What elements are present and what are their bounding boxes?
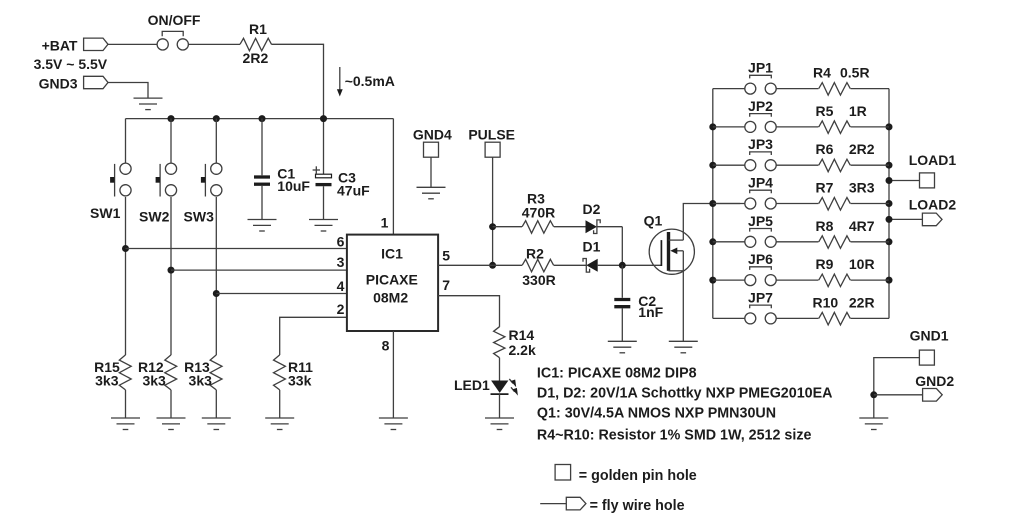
svg-text:2: 2 [337,301,345,317]
svg-text:SW3: SW3 [184,209,215,225]
svg-text:4: 4 [337,278,345,294]
svg-text:08M2: 08M2 [373,290,408,306]
svg-text:3k3: 3k3 [95,373,119,389]
svg-text:330R: 330R [522,272,555,288]
svg-text:SW1: SW1 [90,205,121,221]
svg-text:3k3: 3k3 [142,373,166,389]
svg-text:1: 1 [381,214,389,230]
svg-text:1nF: 1nF [638,304,663,320]
svg-text:R4~R10: Resistor 1% SMD 1W, 25: R4~R10: Resistor 1% SMD 1W, 2512 size [537,428,812,444]
svg-text:2.2k: 2.2k [509,342,536,358]
svg-text:10R: 10R [849,256,875,272]
svg-text:R6: R6 [816,141,834,157]
svg-text:IC1: PICAXE 08M2 DIP8: IC1: PICAXE 08M2 DIP8 [537,366,697,382]
svg-text:R1: R1 [249,21,267,37]
svg-text:PULSE: PULSE [468,127,515,143]
svg-text:10uF: 10uF [277,178,310,194]
svg-text:R10: R10 [813,294,839,310]
svg-text:JP6: JP6 [748,251,773,267]
svg-text:D1, D2: 20V/1A Schottky NXP PM: D1, D2: 20V/1A Schottky NXP PMEG2010EA [537,385,833,401]
svg-text:IC1: IC1 [381,246,403,262]
svg-text:ON/OFF: ON/OFF [148,12,201,28]
svg-text:1R: 1R [849,103,867,119]
svg-text:Q1: 30V/4.5A NMOS NXP PMN30UN: Q1: 30V/4.5A NMOS NXP PMN30UN [537,406,776,422]
svg-text:R14: R14 [509,327,535,343]
svg-text:3.5V ~ 5.5V: 3.5V ~ 5.5V [34,56,108,72]
svg-text:JP4: JP4 [748,175,773,191]
svg-text:3R3: 3R3 [849,180,875,196]
svg-text:JP7: JP7 [748,289,773,305]
svg-text:LOAD2: LOAD2 [909,197,957,213]
svg-text:R8: R8 [816,218,834,234]
svg-text:R4: R4 [813,65,831,81]
svg-text:~0.5mA: ~0.5mA [345,73,395,89]
svg-text:GND3: GND3 [39,76,78,92]
svg-text:3k3: 3k3 [189,373,213,389]
svg-text:LOAD1: LOAD1 [909,152,957,168]
svg-text:2R2: 2R2 [243,50,269,66]
svg-text:JP3: JP3 [748,136,773,152]
svg-text:2R2: 2R2 [849,141,875,157]
svg-text:LED1: LED1 [454,377,490,393]
svg-text:JP5: JP5 [748,213,773,229]
svg-text:6: 6 [337,234,345,250]
svg-text:R2: R2 [526,246,544,262]
svg-text:Q1: Q1 [644,213,663,229]
svg-text:GND2: GND2 [915,373,954,389]
svg-text:R9: R9 [816,256,834,272]
svg-text:R7: R7 [816,180,834,196]
svg-text:470R: 470R [522,205,555,221]
svg-text:JP1: JP1 [748,60,773,76]
svg-text:D2: D2 [583,201,601,217]
svg-text:7: 7 [442,277,450,293]
svg-text:22R: 22R [849,294,875,310]
svg-text:33k: 33k [288,373,312,389]
svg-text:8: 8 [382,338,390,354]
svg-text:5: 5 [442,247,450,263]
svg-text:D1: D1 [583,239,601,255]
svg-text:JP2: JP2 [748,98,773,114]
svg-text:GND1: GND1 [910,328,949,344]
svg-text:= golden pin hole: = golden pin hole [579,468,697,484]
svg-text:= fly wire hole: = fly wire hole [590,498,685,514]
svg-text:R5: R5 [816,103,834,119]
svg-text:+BAT: +BAT [42,37,78,53]
svg-text:SW2: SW2 [139,209,170,225]
svg-text:0.5R: 0.5R [840,65,870,81]
svg-text:3: 3 [337,254,345,270]
svg-text:GND4: GND4 [413,127,452,143]
svg-text:47uF: 47uF [337,183,370,199]
svg-text:PICAXE: PICAXE [366,272,418,288]
svg-text:4R7: 4R7 [849,218,875,234]
